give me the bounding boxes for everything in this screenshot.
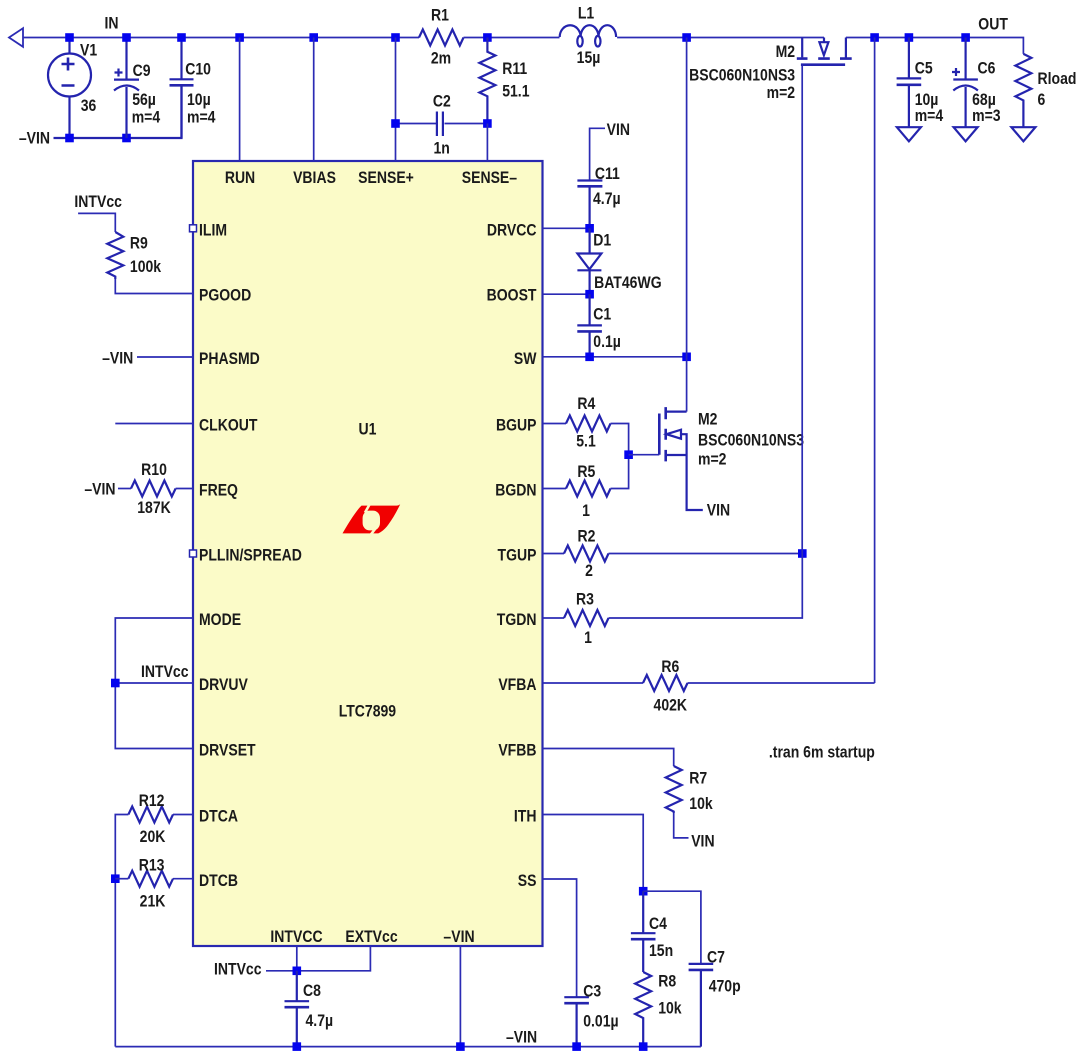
- wire R13 to DTCB: [173, 878, 193, 880]
- resistor R4: [566, 416, 611, 432]
- U1 pin marker PLLIN/SPREAD (unconnected): [190, 550, 197, 557]
- svg-text:R2: R2: [578, 527, 596, 546]
- U1 Linear Technology logo: [343, 504, 401, 535]
- svg-text:C4: C4: [649, 915, 667, 934]
- svg-text:–VIN: –VIN: [102, 349, 133, 368]
- junction V1 bottom: [65, 134, 74, 143]
- svg-text:C1: C1: [593, 305, 611, 324]
- svg-text:187K: 187K: [137, 499, 171, 518]
- svg-text:4.7µ: 4.7µ: [593, 190, 621, 209]
- svg-text:ILIM: ILIM: [199, 221, 227, 240]
- resistor R1: [419, 30, 464, 46]
- svg-text:15µ: 15µ: [577, 49, 601, 68]
- svg-text:BGDN: BGDN: [495, 481, 536, 500]
- svg-text:100k: 100k: [130, 258, 161, 277]
- svg-text:C10: C10: [185, 60, 211, 79]
- resistor R8: [635, 972, 651, 1047]
- capacitor C6 (polarized): [952, 38, 978, 128]
- wire SW row: [543, 356, 687, 358]
- wire DRVCC: [543, 227, 590, 229]
- svg-text:2m: 2m: [431, 49, 451, 68]
- wire R5 to gate node: [611, 455, 629, 489]
- svg-text:C7: C7: [707, 948, 725, 967]
- svg-text:IN: IN: [104, 14, 118, 33]
- wire BGDN to R5: [543, 488, 567, 490]
- junction C2 right: [483, 119, 492, 128]
- wire R12 to DTCA: [173, 814, 193, 816]
- wire C4 node to C7: [643, 891, 701, 963]
- junction RUN top: [235, 33, 244, 42]
- wire R1 to R11 node: [464, 37, 560, 39]
- wire R6 to OUT column: [688, 682, 875, 684]
- wire SS to C3: [543, 879, 577, 997]
- junction C6 top: [961, 33, 970, 42]
- junction C8 top: [293, 967, 302, 976]
- transistor M2 (top, rotated): [797, 38, 852, 65]
- svg-text:1: 1: [582, 502, 590, 521]
- resistor R7: [666, 766, 682, 813]
- junction R11 top: [483, 33, 492, 42]
- capacitor C1: [577, 294, 602, 357]
- svg-text:2: 2: [585, 562, 593, 581]
- svg-text:m=2: m=2: [767, 84, 796, 103]
- svg-text:R10: R10: [141, 461, 167, 480]
- svg-text:DRVUV: DRVUV: [199, 676, 248, 695]
- svg-text:INTVCC: INTVCC: [270, 928, 322, 947]
- wire VFBB to R7: [543, 749, 674, 767]
- svg-text:R3: R3: [576, 590, 594, 609]
- junction OUT node: [870, 33, 879, 42]
- svg-text:R6: R6: [661, 658, 679, 677]
- svg-text:R5: R5: [577, 463, 595, 482]
- svg-text:BGUP: BGUP: [496, 416, 537, 435]
- op-amp U1 LTC7899 body: [193, 161, 543, 946]
- svg-text:TGDN: TGDN: [497, 611, 537, 630]
- wire PHASMD: [137, 356, 193, 358]
- wire R10 to FREQ: [176, 488, 193, 490]
- wire DRVUV: [115, 682, 193, 684]
- wire L1 to M2 drain: [617, 37, 824, 39]
- junction C10 top: [177, 33, 186, 42]
- svg-text:MODE: MODE: [199, 611, 241, 630]
- svg-text:5.1: 5.1: [576, 433, 596, 452]
- svg-text:SW: SW: [514, 350, 537, 369]
- resistor R13: [128, 871, 173, 887]
- junction C8 bottom: [293, 1042, 302, 1051]
- wire TGDN to R3: [543, 617, 565, 619]
- junction C9 bottom: [122, 134, 131, 143]
- svg-text:LTC7899: LTC7899: [339, 702, 397, 721]
- wire DTCA left column to bottom rail: [115, 815, 128, 1047]
- svg-text:10k: 10k: [689, 795, 713, 814]
- wire gate node to M2: [629, 454, 660, 456]
- junction SENSE+ top: [391, 33, 400, 42]
- wire M2 top gate column: [801, 65, 803, 554]
- wire R3 to TGUP node: [609, 554, 803, 619]
- capacitor C8: [285, 971, 310, 1047]
- svg-text:0.1µ: 0.1µ: [593, 333, 621, 352]
- svg-text:C9: C9: [133, 62, 151, 81]
- wire R9 to PGOOD: [115, 279, 193, 294]
- svg-text:–VIN: –VIN: [506, 1028, 537, 1047]
- voltage source V1: [48, 38, 91, 139]
- svg-text:4.7µ: 4.7µ: [306, 1012, 334, 1031]
- wire VBIAS pin: [313, 38, 315, 162]
- diode D1: [577, 228, 601, 294]
- port arrow IN: [9, 28, 23, 47]
- svg-text:m=4: m=4: [915, 107, 944, 126]
- svg-text:FREQ: FREQ: [199, 481, 238, 500]
- junction R8 bottom: [639, 1042, 648, 1051]
- transistor M2 (bottom): [659, 407, 703, 510]
- svg-text:56µ: 56µ: [132, 91, 156, 110]
- svg-text:RUN: RUN: [225, 169, 255, 188]
- junction DTCB: [111, 874, 120, 883]
- svg-text:R7: R7: [689, 769, 707, 788]
- svg-text:–VIN: –VIN: [443, 928, 474, 947]
- wire SW node column: [686, 38, 688, 412]
- svg-text:C8: C8: [303, 982, 321, 1001]
- svg-text:TGUP: TGUP: [498, 546, 537, 565]
- junction ITH/C4 node: [639, 887, 648, 896]
- wire INTVcc to R9: [78, 213, 115, 232]
- junction BOOST: [585, 290, 594, 299]
- wire SENSE+ to C2: [396, 123, 437, 125]
- resistor R2: [564, 546, 609, 562]
- svg-text:C6: C6: [978, 59, 996, 78]
- capacitor C4: [631, 891, 656, 972]
- junction DRVUV: [111, 679, 120, 688]
- svg-text:10k: 10k: [658, 999, 682, 1018]
- svg-text:–VIN: –VIN: [84, 480, 115, 499]
- svg-text:R4: R4: [577, 395, 595, 414]
- svg-text:PLLIN/SPREAD: PLLIN/SPREAD: [199, 546, 302, 565]
- svg-text:470p: 470p: [709, 977, 741, 996]
- wire TGUP to R2: [543, 553, 565, 555]
- wire bottom rail: [115, 1046, 701, 1048]
- svg-text:SS: SS: [518, 872, 537, 891]
- junction TGUP node: [798, 549, 807, 558]
- svg-text:402K: 402K: [654, 697, 688, 716]
- resistor Rload: [1015, 54, 1031, 127]
- junction C5 top: [905, 33, 914, 42]
- svg-text:BSC060N10NS3: BSC060N10NS3: [698, 431, 804, 450]
- wire M2 source to OUT rail: [846, 38, 1024, 54]
- inductor L1: [560, 25, 616, 46]
- svg-text:m=4: m=4: [132, 108, 161, 127]
- junction SW at C1: [585, 353, 594, 362]
- capacitor C9 (polarized): [114, 38, 139, 139]
- U1 pin marker ILIM (unconnected): [190, 225, 197, 232]
- wire top rail V1 to R1: [70, 37, 420, 39]
- wire MODE column: [115, 618, 193, 749]
- svg-text:0.01µ: 0.01µ: [583, 1012, 618, 1031]
- svg-text:BAT46WG: BAT46WG: [594, 274, 662, 293]
- svg-text:BOOST: BOOST: [487, 286, 537, 305]
- svg-text:–VIN: –VIN: [19, 129, 50, 148]
- wire CLKOUT stub: [115, 423, 193, 425]
- svg-text:BSC060N10NS3: BSC060N10NS3: [689, 66, 795, 85]
- wire SENSE+ pin: [395, 38, 397, 162]
- svg-text:DRVSET: DRVSET: [199, 741, 256, 760]
- ground Rload: [1011, 127, 1035, 141]
- svg-text:R8: R8: [658, 972, 676, 991]
- ground C6: [954, 127, 978, 141]
- svg-text:ITH: ITH: [514, 807, 537, 826]
- svg-text:CLKOUT: CLKOUT: [199, 416, 258, 435]
- resistor R9: [107, 232, 123, 279]
- wire INTVcc label to C8: [266, 970, 297, 972]
- svg-text:51.1: 51.1: [502, 82, 530, 101]
- wire BGUP to R4: [543, 423, 567, 425]
- junction M2 gate node: [624, 450, 633, 459]
- svg-text:VIN: VIN: [691, 832, 714, 851]
- junction C2 left: [391, 119, 400, 128]
- svg-text:C3: C3: [583, 982, 601, 1001]
- svg-text:PGOOD: PGOOD: [199, 286, 251, 305]
- resistor R5: [566, 481, 611, 497]
- capacitor C2: [437, 112, 488, 137]
- wire ITH to C4 node: [543, 815, 644, 892]
- junction C9 top: [122, 33, 131, 42]
- wire R2 to gate column: [609, 553, 803, 555]
- wire INTVCC pin stub: [296, 946, 298, 971]
- svg-text:R13: R13: [139, 856, 165, 875]
- resistor R12: [128, 807, 173, 823]
- svg-text:VFBB: VFBB: [498, 741, 536, 760]
- svg-text:m=3: m=3: [972, 107, 1001, 126]
- svg-text:M2: M2: [698, 410, 718, 429]
- resistor R10: [131, 481, 176, 497]
- junction V1 top: [65, 33, 74, 42]
- svg-text:C2: C2: [433, 92, 451, 111]
- svg-text:21K: 21K: [140, 892, 166, 911]
- svg-text:L1: L1: [578, 4, 595, 23]
- resistor R11: [479, 38, 495, 124]
- svg-text:D1: D1: [593, 231, 611, 250]
- svg-text:R9: R9: [130, 234, 148, 253]
- wire R7 to VIN: [674, 813, 689, 838]
- svg-text:6: 6: [1038, 91, 1046, 110]
- resistor R6: [643, 675, 688, 691]
- junction VBIAS top: [309, 33, 318, 42]
- svg-text:M2: M2: [776, 43, 796, 62]
- capacitor C11: [577, 181, 602, 229]
- svg-text:36: 36: [81, 97, 97, 116]
- svg-text:V1: V1: [80, 41, 97, 60]
- resistor R3: [564, 610, 609, 626]
- svg-text:DRVCC: DRVCC: [487, 221, 537, 240]
- wire VIN to C11: [590, 128, 605, 180]
- svg-text:m=4: m=4: [187, 108, 216, 127]
- capacitor C5: [897, 38, 922, 128]
- junction SW node top: [682, 33, 691, 42]
- svg-text:10µ: 10µ: [187, 91, 211, 110]
- svg-text:VIN: VIN: [707, 501, 730, 520]
- svg-text:SENSE–: SENSE–: [462, 169, 518, 188]
- wire DTCB left: [115, 878, 128, 880]
- svg-text:C11: C11: [595, 165, 620, 184]
- wire -VIN pin stub: [459, 946, 461, 1047]
- svg-text:SENSE+: SENSE+: [358, 169, 414, 188]
- svg-text:VFBA: VFBA: [498, 676, 536, 695]
- wire BOOST: [543, 293, 590, 295]
- wire SENSE- pin: [486, 124, 488, 162]
- svg-text:INTVcc: INTVcc: [141, 663, 189, 682]
- wire EXTVcc pin jog: [297, 946, 371, 971]
- wire -VIN to R10: [118, 488, 131, 490]
- svg-text:m=2: m=2: [698, 450, 727, 469]
- svg-text:1: 1: [584, 629, 592, 648]
- wire arrow to V1 top: [23, 37, 70, 39]
- svg-text:U1: U1: [359, 420, 377, 439]
- junction C3 bottom: [572, 1042, 581, 1051]
- svg-text:EXTVcc: EXTVcc: [345, 928, 398, 947]
- svg-text:Rload: Rload: [1038, 70, 1077, 89]
- svg-text:DTCB: DTCB: [199, 872, 238, 891]
- junction DRVCC: [585, 224, 594, 233]
- svg-text:OUT: OUT: [978, 15, 1008, 34]
- wire R4 to gate node: [611, 424, 629, 455]
- capacitor C10: [170, 38, 194, 139]
- svg-text:INTVcc: INTVcc: [74, 193, 122, 212]
- capacitor C7: [689, 964, 714, 1047]
- wire RUN pin: [239, 38, 241, 162]
- svg-text:1n: 1n: [434, 139, 450, 158]
- svg-text:R12: R12: [139, 792, 165, 811]
- svg-text:INTVcc: INTVcc: [214, 960, 262, 979]
- svg-text:PHASMD: PHASMD: [199, 350, 260, 369]
- junction SW node column: [682, 353, 691, 362]
- svg-text:DTCA: DTCA: [199, 807, 238, 826]
- svg-text:20K: 20K: [140, 828, 166, 847]
- junction -VIN pin bottom: [456, 1042, 465, 1051]
- svg-text:VBIAS: VBIAS: [293, 169, 336, 188]
- svg-text:VIN: VIN: [607, 121, 630, 140]
- capacitor C3: [564, 997, 589, 1046]
- svg-text:R11: R11: [502, 60, 527, 79]
- svg-text:.tran 6m startup: .tran 6m startup: [769, 743, 875, 762]
- wire VFBA to R6: [543, 682, 644, 684]
- wire VFBA feedback column: [874, 38, 876, 684]
- svg-text:C5: C5: [915, 59, 933, 78]
- svg-text:15n: 15n: [649, 942, 673, 961]
- ground C5: [897, 127, 921, 141]
- wire -VIN rail top-left: [54, 86, 182, 138]
- svg-text:R1: R1: [431, 6, 449, 25]
